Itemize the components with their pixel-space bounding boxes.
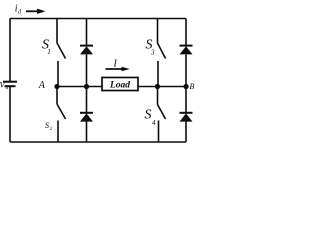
svg-text:Load: Load — [109, 80, 130, 90]
current arrow id line — [26, 10, 38, 12]
load box — [102, 78, 138, 91]
node junction dot S3-S4 — [155, 84, 160, 89]
switch S2 blade — [57, 104, 66, 119]
diode D4 triangle — [180, 113, 193, 121]
svg-text:d: d — [6, 85, 9, 91]
node B junction dot — [183, 84, 188, 89]
svg-text:S: S — [45, 121, 49, 130]
svg-text:A: A — [38, 80, 46, 91]
wire S3 upper lead — [157, 19, 159, 44]
wire S1 lower lead — [57, 61, 59, 87]
capacitor Vd bottom plate — [5, 85, 16, 87]
svg-text:3: 3 — [150, 49, 155, 57]
current arrow I line — [106, 68, 124, 70]
current arrow I head — [122, 67, 130, 72]
svg-text:4: 4 — [152, 119, 156, 127]
switch S3 blade — [158, 43, 166, 59]
wire middle right segment Load to right rail — [138, 86, 186, 88]
wire right rail mid — [185, 55, 187, 113]
current arrow id head — [37, 9, 46, 14]
wire top rail — [10, 18, 186, 20]
svg-text:d: d — [18, 9, 22, 15]
diode D3 triangle — [180, 46, 193, 54]
switch S4 blade — [158, 105, 166, 120]
node junction dot diode leg — [84, 84, 89, 89]
wire D2 leg lower lead — [86, 122, 88, 143]
diode D1 cathode bar — [80, 45, 93, 47]
svg-text:S: S — [145, 108, 152, 123]
switch S1 blade — [57, 43, 66, 59]
wire S1 upper lead — [56, 19, 58, 44]
wire D1-D2 leg mid lead — [86, 55, 88, 113]
wire bottom rail — [10, 141, 186, 143]
wire right rail upper — [185, 19, 187, 46]
diode D1 triangle — [80, 46, 93, 54]
wire S3 lower lead — [157, 61, 159, 87]
wire D1 leg upper lead — [86, 19, 88, 46]
wire left rail upper — [9, 19, 11, 82]
svg-text:1: 1 — [47, 48, 51, 56]
svg-text:2: 2 — [50, 127, 53, 132]
wire S4 upper lead — [157, 87, 159, 105]
wire middle left segment A to Load — [57, 86, 102, 88]
svg-text:I: I — [113, 58, 118, 69]
wire right rail lower — [185, 122, 187, 143]
node A junction dot — [54, 84, 59, 89]
diode D3 cathode bar — [180, 45, 193, 47]
wire S2 upper lead — [56, 87, 58, 105]
diode D2 cathode bar — [80, 112, 93, 114]
wire S2 lower lead — [57, 121, 59, 143]
svg-text:B: B — [190, 82, 195, 91]
wire left rail lower — [9, 87, 11, 143]
capacitor Vd top plate — [3, 81, 17, 83]
diode D2 triangle — [80, 113, 93, 121]
wire S4 lower lead — [158, 121, 160, 143]
diode D4 cathode bar — [180, 112, 193, 114]
